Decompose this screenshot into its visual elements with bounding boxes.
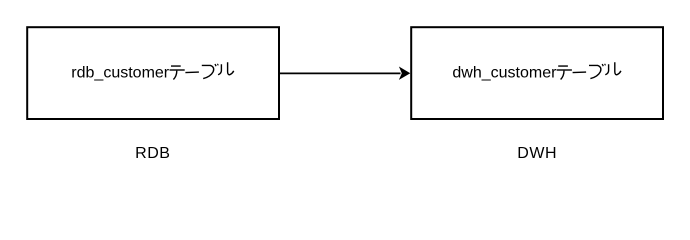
svg-text:DWH: DWH	[517, 145, 557, 162]
svg-text:rdb_customer: rdb_customer	[71, 65, 169, 82]
svg-text:RDB: RDB	[135, 145, 170, 162]
svg-text:dwh_customer: dwh_customer	[452, 65, 557, 82]
